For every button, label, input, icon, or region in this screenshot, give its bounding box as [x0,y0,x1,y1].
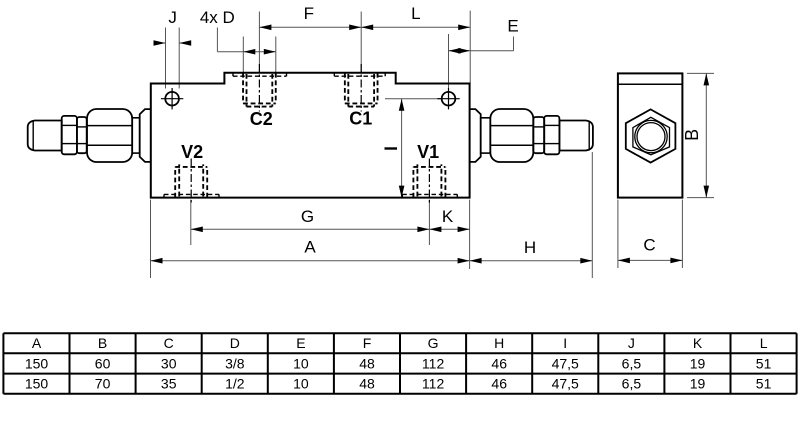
extension line C1 centre (F/L) [360,12,362,73]
svg-text:I: I [563,335,567,351]
arrows B [704,73,710,85]
svg-text:C: C [164,335,174,351]
extension line C right [681,200,683,268]
dimension line E with tail to label [449,50,471,52]
extension line B bottom [687,197,714,199]
dimension table grid [3,333,796,394]
right fitting: hex body [490,109,533,162]
svg-text:70: 70 [95,376,111,392]
svg-text:48: 48 [359,376,375,392]
extension line body right bottom (K/A/H) [469,200,471,269]
svg-text:V1: V1 [417,142,439,162]
extension line B top [687,72,714,74]
arrows D [243,49,255,55]
extension line C2 centre (F) [258,12,260,73]
svg-text:J: J [628,335,635,351]
svg-text:G: G [428,335,439,351]
dimension line G [191,228,430,230]
svg-text:6,5: 6,5 [622,376,642,392]
dimension line K [429,228,469,230]
svg-text:19: 19 [690,376,706,392]
arrows E [449,48,461,54]
right fitting: neck [481,118,491,153]
svg-text:E: E [296,335,305,351]
arrows G [191,227,203,233]
extension line J right [178,28,180,89]
svg-text:E: E [507,16,518,35]
svg-text:H: H [524,238,536,257]
svg-text:K: K [693,335,703,351]
right fitting: nut [544,116,559,154]
svg-text:B: B [98,335,107,351]
svg-text:48: 48 [359,355,375,371]
svg-text:L: L [411,4,420,23]
right fitting: ring [533,117,544,153]
mounting hole left [165,92,179,106]
label I (rotated) [385,147,398,149]
left fitting: neck [132,118,140,153]
svg-text:30: 30 [161,355,177,371]
svg-text:19: 19 [690,355,706,371]
arrows L [361,25,373,31]
extension line J left (hole diameter) [165,28,167,89]
svg-text:C2: C2 [250,109,273,129]
arrows J (outside pointing in) [155,42,166,44]
port V2 (hidden hole) [175,164,207,197]
svg-text:V2: V2 [181,142,203,162]
port C1 (hidden hole) [345,73,378,107]
svg-text:47,5: 47,5 [552,376,579,392]
port C2 (hidden hole) [243,73,276,107]
left fitting: ring [77,117,87,153]
spot-face notch C2 [233,73,287,76]
svg-text:4x D: 4x D [200,8,235,27]
svg-text:47,5: 47,5 [552,355,579,371]
svg-text:K: K [442,207,454,226]
svg-text:51: 51 [756,376,772,392]
svg-text:J: J [168,8,177,27]
svg-text:C1: C1 [349,108,372,128]
arrows I [399,99,405,111]
spot-face notch C1 [334,73,385,76]
extension line right hole centre (E) [448,34,450,91]
svg-text:B: B [682,129,702,141]
svg-text:6,5: 6,5 [622,355,642,371]
valve body outline (front view) [151,73,470,198]
svg-text:60: 60 [95,355,111,371]
side view hex nut chamfer [633,117,670,155]
svg-text:C: C [643,236,655,255]
right fitting: body flange [470,109,481,162]
svg-text:A: A [32,335,42,351]
svg-text:112: 112 [422,376,445,392]
svg-text:46: 46 [491,355,507,371]
svg-text:10: 10 [293,355,309,371]
extension line V2 centre (G) [190,200,192,245]
dimension line B [705,73,707,197]
left fitting: body flange [140,109,151,162]
arrows K [429,227,441,233]
svg-text:F: F [363,335,372,351]
svg-text:A: A [304,238,316,257]
extension line V1 centre (G/K) [428,200,430,245]
svg-text:G: G [301,207,314,226]
arrows F [259,25,271,31]
svg-text:3/8: 3/8 [225,355,245,371]
dimension line C [618,259,683,261]
extension line D right [275,37,277,74]
dimension line F [259,26,361,28]
dimension line L [361,26,470,28]
svg-text:1/2: 1/2 [225,376,245,392]
svg-text:150: 150 [25,355,49,371]
svg-text:150: 150 [25,376,49,392]
svg-text:L: L [760,335,768,351]
extension line D left [242,37,244,74]
dimension line D [243,51,275,53]
extension line H right (plug end) [591,152,593,278]
left fitting: plug end [28,121,62,151]
svg-text:46: 46 [491,376,507,392]
spot-face notch V2 [164,194,219,197]
extension line C left [617,200,619,268]
arrows A [151,258,163,264]
svg-text:D: D [230,335,240,351]
right fitting: plug end [559,121,593,151]
left fitting: hex body [87,109,132,162]
extension line I top (from hole centre) [385,98,442,100]
side view hex nut outer [626,109,676,162]
arrows C [618,258,630,264]
table text [25,335,772,392]
leader 4x D [216,28,218,52]
left fitting: nut [62,116,77,154]
svg-text:H: H [494,335,504,351]
dimension line I [401,99,403,198]
extension line body right top (L/E) [469,11,471,84]
svg-text:10: 10 [293,376,309,392]
dimension line H [470,260,593,262]
svg-text:112: 112 [422,355,445,371]
dimension line A [151,260,470,262]
extension line A left [150,200,152,278]
mounting hole right [442,92,456,106]
side view step line [618,83,683,85]
spot-face notch V1 [402,194,457,197]
arrows H [470,258,482,264]
port V1 (hidden hole) [413,164,445,197]
svg-text:35: 35 [161,376,177,392]
side view body [618,73,683,197]
svg-text:F: F [304,4,314,23]
svg-text:51: 51 [756,355,772,371]
side view thread circles [635,120,667,152]
